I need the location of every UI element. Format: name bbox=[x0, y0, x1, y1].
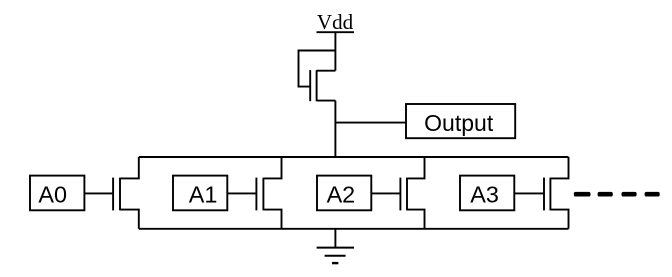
Output box bbox=[406, 104, 515, 138]
transistor Q1 (A0) source lead to bottom rail bbox=[120, 210, 139, 229]
transistor Q1 (A0) gate bbox=[112, 178, 114, 211]
transistor Q3 (A2) source lead to bottom rail bbox=[407, 210, 425, 229]
load transistor M0 drain lead bbox=[317, 70, 336, 72]
transistor Q2 (A1) source lead to bottom rail bbox=[263, 210, 281, 229]
wire output node to Output box bbox=[335, 122, 406, 124]
wire bottom rail to ground bbox=[334, 229, 336, 248]
input box A2 bbox=[317, 176, 371, 211]
svg-text:Vdd: Vdd bbox=[317, 10, 354, 34]
transistor Q2 (A1) drain lead to top rail bbox=[263, 157, 281, 178]
ground bbox=[317, 248, 354, 264]
svg-text:A1: A1 bbox=[189, 182, 218, 208]
transistor Q1 (A0) drain lead to top rail bbox=[120, 157, 139, 178]
transistor Q3 (A2) channel bbox=[406, 178, 408, 211]
load transistor M0 gate bbox=[309, 70, 311, 101]
wire Vdd rail to load drain bbox=[334, 31, 336, 70]
input box A1 bbox=[173, 176, 227, 211]
bottom rail (ground node) bbox=[139, 228, 569, 230]
svg-text:Output: Output bbox=[424, 110, 494, 136]
transistor Q4 (A3) drain lead to top rail bbox=[550, 157, 568, 178]
wire A0 to gate bbox=[84, 192, 112, 194]
transistor Q2 (A1) channel bbox=[262, 178, 264, 211]
wire A3 to gate bbox=[514, 192, 543, 194]
transistor Q4 (A3) source lead to bottom rail bbox=[550, 210, 568, 229]
svg-text:A2: A2 bbox=[327, 182, 356, 208]
transistor Q1 (A0) channel bbox=[119, 178, 121, 211]
wire A2 to gate bbox=[371, 192, 399, 194]
wire load gate tie (gate to drain) bbox=[299, 51, 336, 87]
svg-text:A3: A3 bbox=[470, 182, 499, 208]
input box A0 bbox=[30, 176, 84, 211]
Vdd power rail bbox=[317, 31, 355, 33]
transistor Q3 (A2) gate bbox=[399, 178, 401, 211]
svg-text:A0: A0 bbox=[38, 182, 67, 208]
transistor Q4 (A3) channel bbox=[549, 178, 551, 211]
wire load source to output node bbox=[334, 101, 336, 158]
load transistor M0 channel bbox=[316, 70, 318, 101]
wire continuation (dashed) bbox=[574, 192, 660, 197]
load transistor M0 source lead bbox=[317, 100, 336, 102]
input box A3 bbox=[460, 176, 514, 211]
wire A1 to gate bbox=[227, 192, 255, 194]
transistor Q4 (A3) gate bbox=[543, 178, 545, 211]
top rail (output node) bbox=[139, 156, 569, 158]
transistor Q3 (A2) drain lead to top rail bbox=[407, 157, 425, 178]
transistor Q2 (A1) gate bbox=[255, 178, 257, 211]
